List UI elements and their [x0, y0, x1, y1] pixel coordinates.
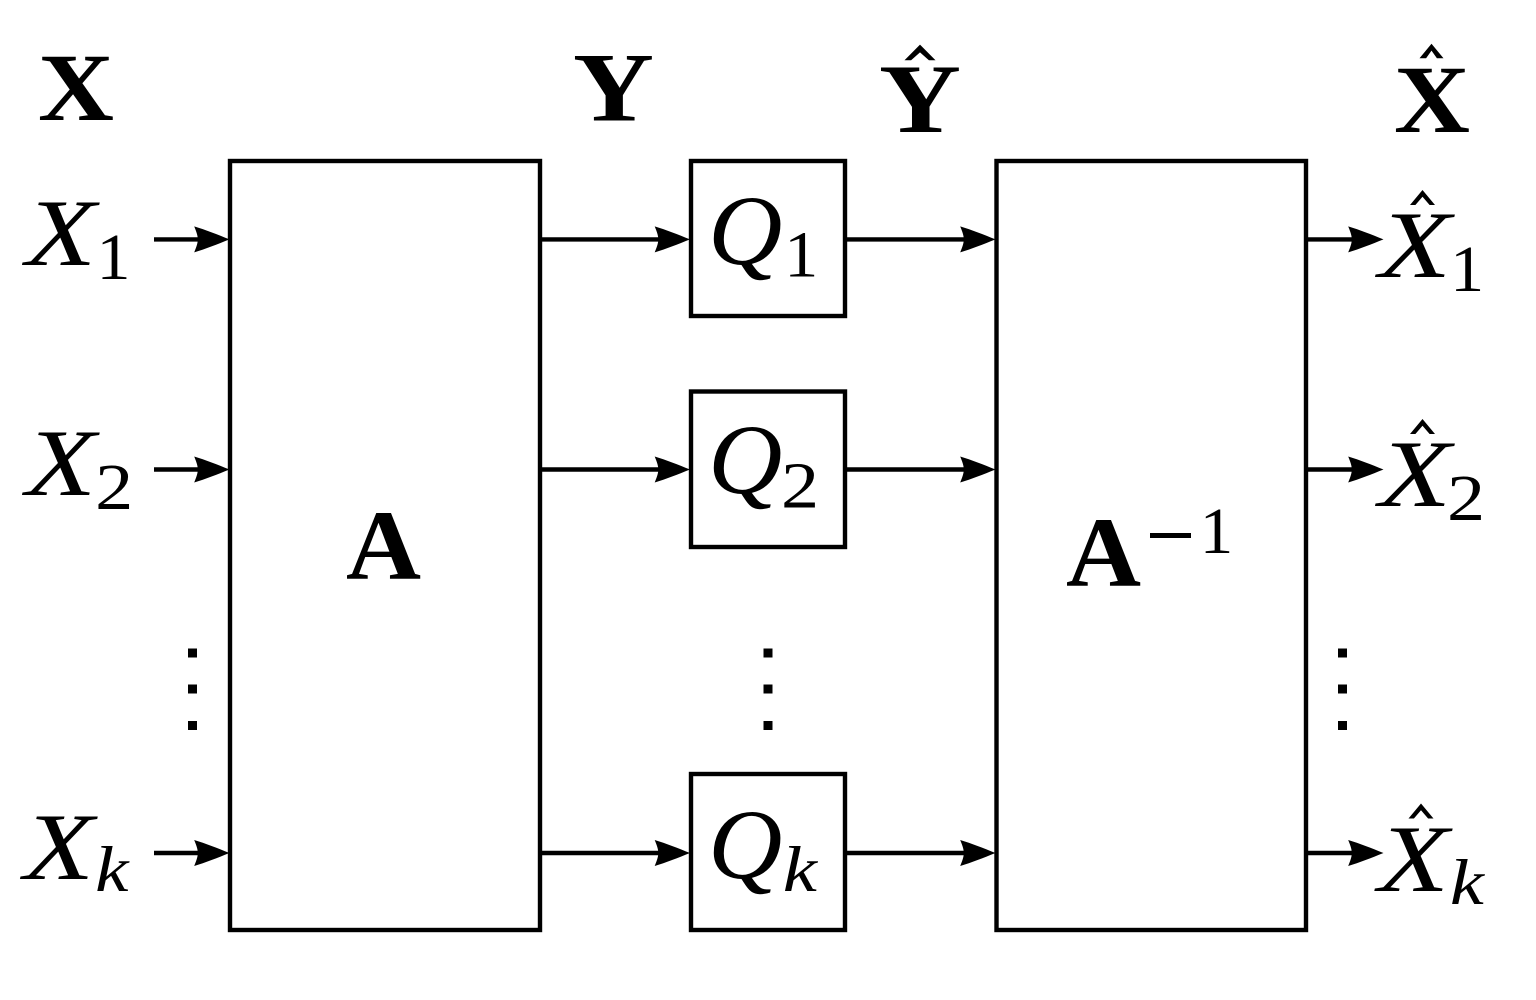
svg-text:k: k — [783, 834, 819, 906]
svg-text:X: X — [19, 794, 99, 900]
svg-text:Y: Y — [573, 34, 654, 143]
svg-text:X: X — [21, 180, 101, 286]
svg-text:X: X — [38, 34, 114, 141]
svg-text:1: 1 — [97, 221, 131, 294]
svg-text:A: A — [346, 490, 421, 601]
svg-text:k: k — [95, 834, 130, 906]
svg-text:Y: Y — [879, 45, 961, 154]
svg-text:X: X — [1374, 421, 1456, 527]
svg-text:Q: Q — [708, 789, 782, 900]
svg-text:1: 1 — [1450, 233, 1484, 306]
svg-text:Q: Q — [708, 175, 782, 286]
svg-text:1: 1 — [784, 219, 818, 292]
svg-text:X: X — [1374, 192, 1456, 298]
svg-text:2: 2 — [781, 450, 819, 523]
svg-text:A: A — [1066, 497, 1141, 608]
svg-text:Q: Q — [708, 404, 782, 515]
svg-text:X: X — [1394, 46, 1470, 153]
svg-text:X: X — [1373, 806, 1454, 912]
svg-text:X: X — [21, 410, 101, 516]
svg-text:k: k — [1450, 847, 1485, 919]
svg-text:2: 2 — [95, 451, 133, 524]
svg-text:2: 2 — [1447, 462, 1485, 535]
svg-text:1: 1 — [1200, 495, 1234, 568]
